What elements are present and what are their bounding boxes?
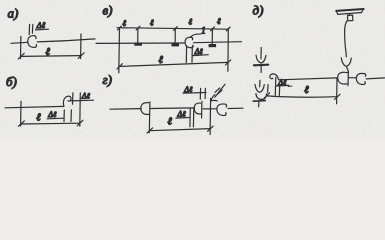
svg-text:а): а) [8,6,19,21]
svg-text:г): г) [103,72,112,87]
svg-text:ℓ: ℓ [150,18,154,28]
svg-text:б): б) [6,74,17,89]
svg-text:ℓ: ℓ [189,17,193,27]
svg-text:ℓ: ℓ [123,18,127,28]
svg-text:в): в) [103,3,113,18]
svg-text:ℓ: ℓ [217,16,221,26]
svg-text:ℓ: ℓ [36,113,41,124]
svg-text:ℓ: ℓ [168,116,173,127]
svg-text:Δℓ: Δℓ [81,92,91,101]
svg-text:д): д) [253,3,264,18]
svg-text:ℓ: ℓ [304,85,309,96]
svg-text:ℓ: ℓ [46,47,51,58]
svg-text:Δℓ: Δℓ [36,20,46,30]
svg-text:1: 1 [201,27,206,37]
svg-text:Δℓ: Δℓ [47,110,57,119]
svg-text:ℓ: ℓ [159,55,164,66]
